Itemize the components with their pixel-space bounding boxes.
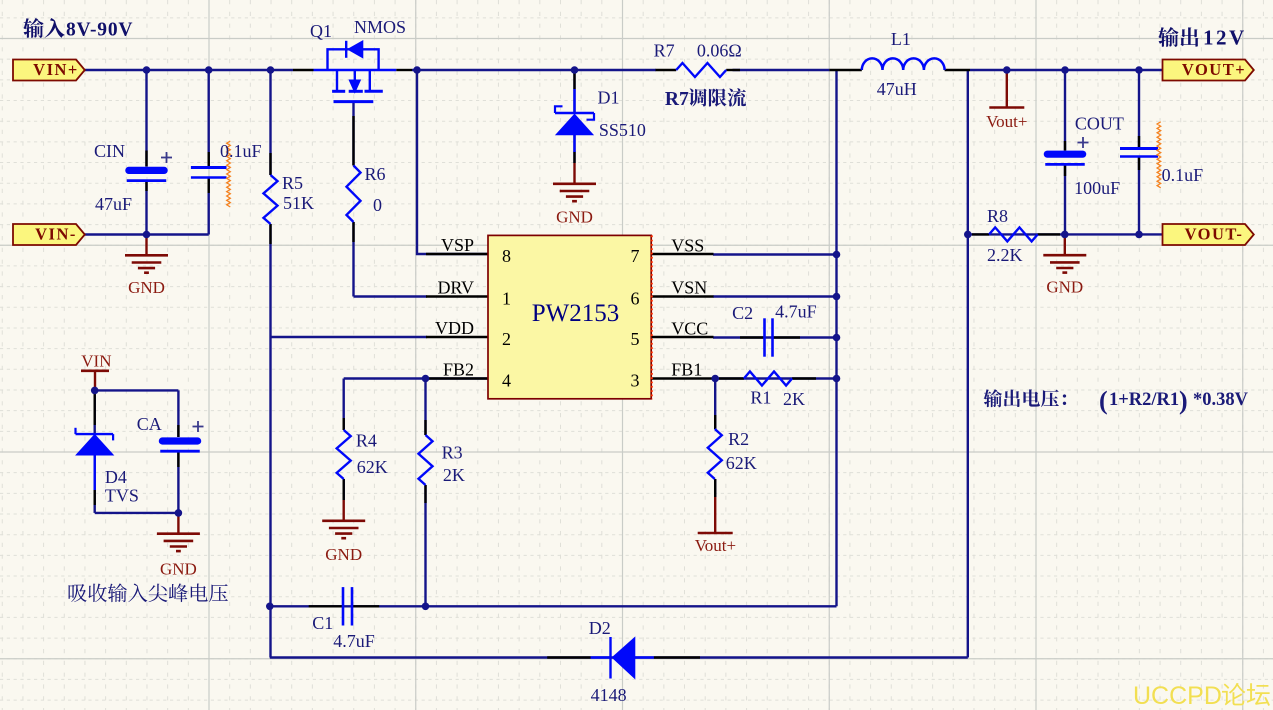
svg-text:C2: C2 bbox=[732, 303, 753, 323]
svg-text:GND: GND bbox=[556, 208, 593, 227]
svg-text:4.7uF: 4.7uF bbox=[775, 302, 817, 322]
svg-text:R7: R7 bbox=[665, 89, 689, 110]
svg-text:CA: CA bbox=[137, 414, 162, 434]
svg-text:12V: 12V bbox=[1203, 26, 1247, 50]
svg-text:2: 2 bbox=[502, 329, 511, 349]
svg-text:8V-90V: 8V-90V bbox=[66, 20, 133, 41]
svg-text:VCC: VCC bbox=[671, 319, 708, 339]
svg-text:VOUT+: VOUT+ bbox=[1182, 60, 1246, 79]
svg-text:1: 1 bbox=[502, 289, 511, 309]
svg-text:R3: R3 bbox=[442, 443, 463, 463]
svg-text:GND: GND bbox=[160, 560, 197, 579]
svg-text:1+R2/R1: 1+R2/R1 bbox=[1109, 390, 1179, 410]
svg-text:VDD: VDD bbox=[435, 318, 474, 338]
svg-text:2K: 2K bbox=[783, 389, 805, 409]
svg-text:R2: R2 bbox=[728, 429, 749, 449]
svg-text:FB1: FB1 bbox=[671, 360, 702, 380]
svg-text:TVS: TVS bbox=[105, 486, 139, 506]
svg-text:SS510: SS510 bbox=[599, 120, 646, 140]
svg-text:4: 4 bbox=[502, 371, 511, 391]
svg-text:62K: 62K bbox=[726, 453, 757, 473]
svg-text:62K: 62K bbox=[357, 457, 388, 477]
svg-text:PW2153: PW2153 bbox=[532, 300, 620, 327]
svg-text:0: 0 bbox=[373, 195, 382, 215]
svg-text:VSP: VSP bbox=[441, 235, 474, 255]
svg-text:VSS: VSS bbox=[671, 236, 704, 256]
svg-text:47uF: 47uF bbox=[95, 194, 132, 214]
svg-text:R5: R5 bbox=[282, 173, 303, 193]
svg-text:8: 8 bbox=[502, 246, 511, 266]
svg-text:D2: D2 bbox=[589, 618, 611, 638]
svg-text:D4: D4 bbox=[105, 467, 127, 487]
svg-text:VOUT-: VOUT- bbox=[1185, 225, 1244, 244]
svg-text:*0.38V: *0.38V bbox=[1193, 390, 1249, 410]
svg-text:UCCPD: UCCPD bbox=[1133, 682, 1222, 710]
svg-text:COUT: COUT bbox=[1075, 114, 1124, 134]
svg-text:VIN+: VIN+ bbox=[33, 60, 79, 79]
svg-text:FB2: FB2 bbox=[443, 360, 474, 380]
svg-text:VIN: VIN bbox=[81, 352, 111, 371]
svg-text:2.2K: 2.2K bbox=[987, 245, 1023, 265]
svg-text:Q1: Q1 bbox=[310, 21, 332, 41]
svg-text:51K: 51K bbox=[283, 193, 314, 213]
svg-text:NMOS: NMOS bbox=[354, 17, 406, 37]
svg-text:5: 5 bbox=[631, 329, 640, 349]
svg-text:0.1uF: 0.1uF bbox=[1162, 165, 1204, 185]
svg-text:): ) bbox=[1179, 386, 1188, 415]
svg-text:VSN: VSN bbox=[671, 278, 707, 298]
svg-text:VIN-: VIN- bbox=[35, 225, 77, 244]
svg-text:D1: D1 bbox=[598, 88, 620, 108]
svg-text:CIN: CIN bbox=[94, 141, 125, 161]
svg-text:GND: GND bbox=[1046, 277, 1083, 296]
svg-text:Vout+: Vout+ bbox=[986, 112, 1027, 131]
svg-text:0.1uF: 0.1uF bbox=[220, 141, 262, 161]
svg-text:4148: 4148 bbox=[591, 685, 627, 705]
svg-text:(: ( bbox=[1099, 386, 1108, 415]
svg-text:C1: C1 bbox=[312, 613, 333, 633]
svg-text:2K: 2K bbox=[443, 465, 465, 485]
svg-text:Vout+: Vout+ bbox=[695, 536, 736, 555]
svg-text:47uH: 47uH bbox=[877, 79, 917, 99]
svg-text:6: 6 bbox=[631, 289, 640, 309]
svg-text:DRV: DRV bbox=[437, 278, 474, 298]
svg-text:3: 3 bbox=[631, 371, 640, 391]
svg-text:R4: R4 bbox=[356, 431, 377, 451]
svg-text:GND: GND bbox=[128, 278, 165, 297]
svg-text:100uF: 100uF bbox=[1074, 178, 1120, 198]
svg-text:0.06Ω: 0.06Ω bbox=[697, 41, 742, 61]
svg-text:R6: R6 bbox=[365, 164, 386, 184]
svg-text:4.7uF: 4.7uF bbox=[333, 631, 375, 651]
svg-text:7: 7 bbox=[631, 246, 640, 266]
svg-text:L1: L1 bbox=[891, 29, 911, 49]
svg-text:GND: GND bbox=[325, 545, 362, 564]
svg-text:R8: R8 bbox=[987, 206, 1008, 226]
svg-text:R1: R1 bbox=[750, 388, 771, 408]
svg-text:R7: R7 bbox=[654, 41, 675, 61]
